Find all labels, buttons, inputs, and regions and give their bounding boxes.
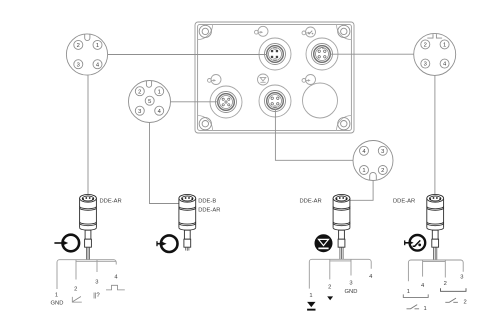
svg-text:DDE-AR: DDE-AR	[300, 199, 322, 205]
icon turn-arrow column 2	[157, 235, 178, 252]
svg-text:1: 1	[96, 43, 99, 49]
pinout connector 5-pin (notch up)	[129, 81, 171, 123]
small triangle symbol	[327, 296, 333, 300]
svg-text:1: 1	[424, 306, 427, 312]
svg-text:2: 2	[464, 299, 467, 305]
pinout connector right-top (4-pin, keyway)	[414, 33, 456, 75]
svg-text:3: 3	[460, 275, 463, 281]
svg-text:DDE-AR: DDE-AR	[198, 208, 220, 214]
svg-text:2: 2	[328, 285, 331, 291]
wire pinout1 to box TL socket	[108, 54, 268, 56]
box blank port mid-right	[303, 83, 338, 118]
svg-text:2: 2	[77, 43, 80, 49]
pin 1	[440, 40, 449, 49]
icon level-switch column 3	[315, 234, 333, 252]
fan bar column 1	[57, 260, 116, 289]
pin 3	[421, 59, 430, 68]
wire pinout1 down to plug 1	[87, 75, 89, 194]
wire box TR socket to pinout right	[330, 53, 413, 55]
svg-text:2: 2	[381, 168, 384, 174]
svg-text:3: 3	[138, 109, 141, 115]
pulse signal symbol	[106, 285, 125, 290]
svg-text:1: 1	[309, 293, 312, 299]
wire box MC socket down to pinout bottom-right	[275, 109, 353, 161]
box socket mid-center (female 4-pin)	[259, 85, 291, 117]
icon switch-output column 4	[405, 235, 426, 251]
mini icon above blank port	[302, 75, 316, 85]
level limit symbol (triangle with bar)	[307, 302, 315, 311]
pin 4	[93, 60, 102, 69]
pin 1	[360, 166, 369, 175]
svg-text:DDE-B: DDE-B	[198, 199, 216, 205]
plug 4 body	[427, 194, 444, 247]
mini icon above mid-left socket	[208, 75, 222, 85]
svg-text:||?: ||?	[93, 293, 100, 299]
svg-text:1: 1	[443, 43, 446, 49]
pin 1	[155, 87, 164, 96]
wire pinout right down to plug 4	[434, 75, 436, 194]
relay contact symbol 1	[407, 305, 420, 309]
mini icon above mid-center socket (level symbol)	[258, 74, 269, 85]
pin 2	[421, 40, 430, 49]
wire 5-pin pinout to box ML socket	[171, 101, 219, 103]
svg-text:2: 2	[138, 89, 141, 95]
svg-text:1: 1	[55, 293, 58, 299]
fan bar column 4	[408, 260, 463, 281]
pin 2	[135, 87, 144, 96]
pin 3	[135, 106, 144, 115]
plug 3 body	[333, 194, 350, 247]
plug 4 cable	[434, 247, 437, 260]
pin 3	[378, 146, 387, 155]
plug 3 cable	[340, 247, 343, 259]
pin 4	[360, 146, 369, 155]
ramp signal symbol	[72, 297, 82, 303]
svg-text:DDE-AR: DDE-AR	[393, 199, 415, 205]
svg-text:1: 1	[362, 168, 365, 174]
fan bar column 3	[309, 259, 371, 288]
screw bottom-left	[199, 118, 211, 130]
screw top-left	[199, 25, 211, 37]
mini icon above top-right socket (switch)	[302, 27, 316, 37]
pin 1	[93, 40, 102, 49]
svg-text:GND: GND	[51, 301, 64, 307]
pin 4	[155, 106, 164, 115]
svg-text:3: 3	[424, 62, 427, 68]
pin 4	[440, 59, 449, 68]
plug 2 cable stub	[186, 247, 189, 251]
pinout connector left-top (4-pin, notch up)	[66, 34, 107, 75]
corner screw pockets	[198, 25, 352, 131]
relay contact bracket 1	[403, 294, 428, 297]
box socket top-left (male 4-pin)	[259, 38, 291, 70]
screw top-right	[338, 25, 350, 37]
pin 2	[74, 40, 83, 49]
svg-text:1: 1	[158, 89, 161, 95]
pin 5	[145, 96, 154, 105]
svg-text:3: 3	[349, 280, 352, 286]
svg-text:2: 2	[444, 281, 447, 287]
svg-text:3: 3	[77, 62, 80, 68]
svg-text:3: 3	[95, 279, 98, 285]
pin 3	[74, 60, 83, 69]
svg-text:DDE-AR: DDE-AR	[100, 199, 122, 205]
svg-text:1: 1	[407, 289, 410, 295]
box socket top-right (female 4-pin)	[306, 38, 338, 70]
plug 1 cable	[86, 247, 89, 259]
svg-text:3: 3	[381, 149, 384, 155]
box socket mid-left (female 5-pin)	[210, 86, 242, 118]
icon turn-arrow column 1	[54, 235, 79, 252]
relay contact bracket 2	[441, 288, 467, 291]
wire 5-pin pinout down and right to plug 2	[150, 123, 179, 204]
svg-text:5: 5	[148, 99, 151, 105]
pin 2	[378, 166, 387, 175]
svg-text:2: 2	[424, 43, 427, 49]
svg-text:GND: GND	[345, 289, 358, 295]
screw bottom-right	[338, 118, 350, 130]
relay contact symbol 2	[445, 298, 458, 302]
plug 1 body	[80, 194, 97, 247]
plug 2 body	[179, 194, 196, 247]
mini icon above top-left socket	[255, 26, 269, 36]
wire pinout bottom-right down and left to plug 3	[350, 181, 373, 200]
pinout connector bottom-right (4-pin, notch down)	[353, 141, 393, 181]
svg-text:2: 2	[74, 286, 77, 292]
junction box outer body	[195, 22, 354, 133]
